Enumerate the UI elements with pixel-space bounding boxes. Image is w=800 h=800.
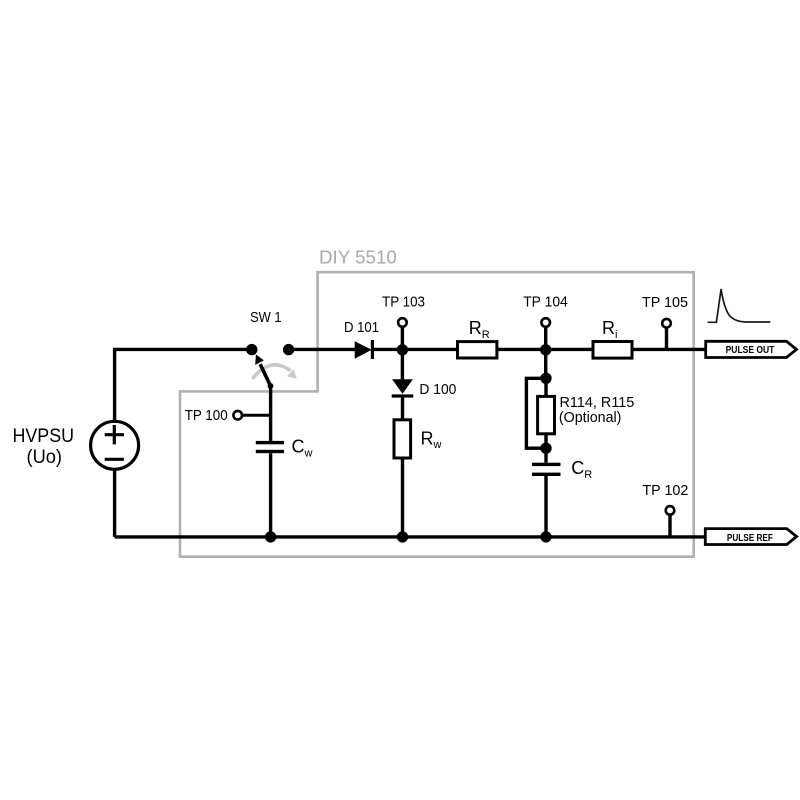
- wire: Ri to PULSE OUT: [632, 348, 706, 351]
- svg-text:D 100: D 100: [419, 381, 456, 398]
- switch SW1: [246, 344, 294, 389]
- junction dot parallel top: [540, 373, 551, 384]
- junction dot CR-rail: [540, 531, 551, 542]
- junction dot Rw-rail: [397, 531, 408, 542]
- svg-text:D 101: D 101: [344, 319, 379, 336]
- svg-text:DIY 5510: DIY 5510: [319, 248, 397, 268]
- wire: node TP104 down: [544, 349, 547, 378]
- junction node TP104: [540, 344, 551, 355]
- svg-text:TP 100: TP 100: [185, 407, 228, 424]
- svg-text:(Optional): (Optional): [559, 409, 622, 426]
- svg-text:TP 102: TP 102: [642, 482, 688, 499]
- wire: bottom rail: [115, 535, 706, 538]
- wire: node TP103 down to D100: [401, 349, 404, 379]
- wire: D100 to Rw: [401, 398, 404, 420]
- capacitor Cw: [256, 441, 284, 453]
- resistor RR: [458, 342, 497, 358]
- svg-text:HVPSU: HVPSU: [13, 426, 75, 447]
- diode D101: [355, 340, 374, 359]
- wire: RR to Ri through node TP104: [497, 348, 593, 351]
- wire: D101 to resistor RR: [374, 348, 458, 351]
- wire: SW1 to D101: [289, 348, 355, 351]
- junction dot parallel bottom: [540, 443, 551, 454]
- resistor Rw: [394, 420, 411, 458]
- wire: HVPSU top to switch SW1: [115, 349, 252, 421]
- wire: HVPSU bottom to ground rail: [113, 469, 116, 537]
- resistor Ri: [593, 342, 632, 359]
- svg-text:SW 1: SW 1: [250, 309, 282, 326]
- voltage source U HVPSU: [91, 421, 139, 469]
- svg-text:TP 103: TP 103: [382, 293, 425, 310]
- capacitor CR: [532, 463, 561, 476]
- wire: Cw to bottom rail: [269, 453, 272, 537]
- output pulse waveform: [708, 289, 771, 322]
- wire: R114 stems: [544, 378, 547, 448]
- junction node TP103: [397, 344, 408, 355]
- switch motion arc arrow: [252, 365, 296, 379]
- svg-text:(Uo): (Uo): [27, 447, 63, 468]
- svg-text:PULSE OUT: PULSE OUT: [726, 345, 775, 356]
- wire: parallel loop: [526, 378, 546, 448]
- PULSE OUT tag: [706, 341, 797, 357]
- test point TP 103: [398, 318, 407, 349]
- test point TP 100: [233, 411, 270, 420]
- DIY 5510 enclosure box: [180, 272, 694, 557]
- svg-text:TP 105: TP 105: [642, 294, 688, 311]
- svg-text:TP 104: TP 104: [523, 293, 568, 310]
- label R114, R115 (Optional): [559, 394, 634, 426]
- resistor R114: [538, 396, 555, 433]
- wire: switch pole down to Cw: [269, 385, 272, 441]
- svg-text:PULSE REF: PULSE REF: [727, 533, 773, 544]
- PULSE REF tag: [705, 529, 796, 545]
- junction dot Cw-rail: [265, 531, 276, 542]
- label HVPSU (Uo): [13, 426, 75, 468]
- wire: CR to bottom rail: [544, 476, 547, 537]
- diode D100: [392, 379, 414, 397]
- wire: dot to CR: [544, 448, 547, 463]
- test point TP 102: [666, 506, 675, 537]
- test point TP 104: [541, 318, 550, 349]
- test point TP 105: [662, 319, 671, 349]
- wire: Rw to bottom rail: [401, 458, 404, 537]
